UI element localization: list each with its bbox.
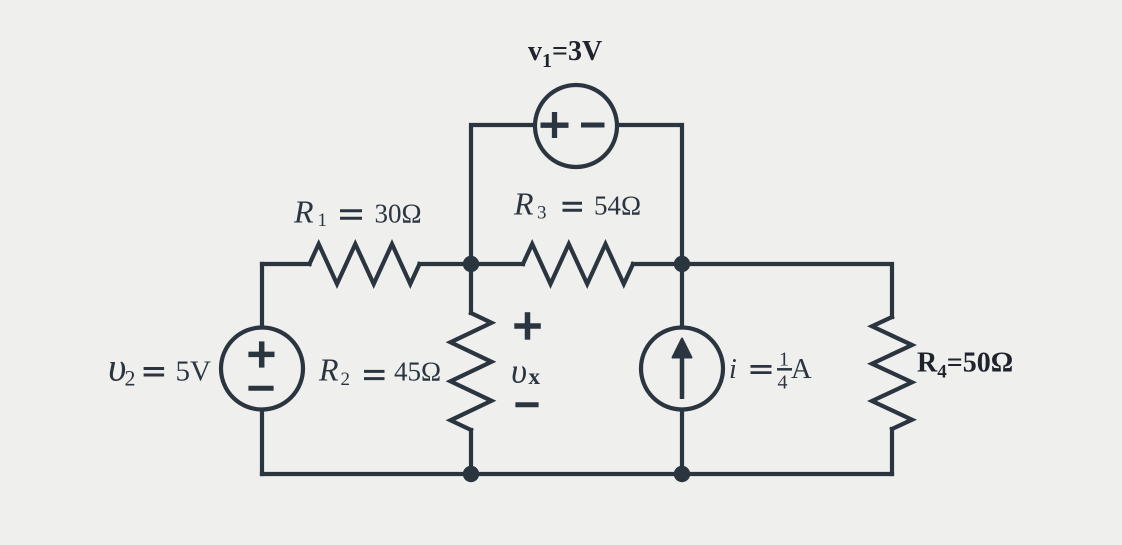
svg-text:A: A — [791, 354, 812, 385]
wire left branch top (R1 left lead to v2 source top) — [260, 264, 264, 326]
wire top-left from node A up and to V1 — [471, 125, 533, 264]
V2 plus sign — [248, 341, 274, 367]
V2 minus sign — [248, 386, 273, 391]
svg-text:x: x — [529, 364, 541, 389]
svg-text:1: 1 — [318, 210, 328, 231]
label R1 = 30 ohm — [293, 194, 422, 232]
resistor R4 — [872, 317, 912, 429]
svg-text:R: R — [293, 194, 314, 230]
resistor R2 — [451, 313, 492, 430]
wire R4 bottom lead — [890, 429, 894, 474]
svg-text:R: R — [513, 186, 534, 222]
wire R3 right lead to node B — [633, 262, 682, 266]
svg-text:v1=3V: v1=3V — [528, 36, 602, 72]
wire R1 left lead — [262, 262, 310, 266]
wire R2 top lead — [469, 264, 473, 313]
svg-text:1: 1 — [779, 349, 789, 371]
label R3 = 54 ohm — [513, 186, 641, 224]
label i = 1/4 A — [729, 349, 812, 394]
svg-text:i: i — [729, 354, 737, 385]
wire node B to R4 branch — [682, 264, 892, 317]
resistor R1 — [310, 244, 420, 284]
I1 arrow shaft — [680, 356, 685, 399]
wire current source top lead — [680, 264, 684, 327]
node A (top middle junction) — [463, 256, 479, 272]
vx plus sign — [514, 312, 541, 340]
wire R3 left lead — [471, 262, 523, 266]
node D (bottom right junction) — [674, 466, 690, 482]
wire left branch bottom (v2 source bottom to bottom rail) — [260, 410, 264, 474]
current source I1 body — [641, 328, 723, 410]
svg-text:R: R — [318, 352, 339, 388]
svg-text:υ: υ — [511, 352, 527, 391]
svg-text:45Ω: 45Ω — [394, 357, 441, 387]
wire current source bottom lead — [680, 411, 684, 474]
wire R1 right lead to node A — [420, 262, 472, 266]
label vx — [511, 352, 541, 391]
svg-text:5V: 5V — [176, 355, 212, 387]
svg-text:2: 2 — [341, 369, 351, 390]
node B (top right junction) — [674, 256, 690, 272]
voltage source V2 body — [221, 328, 303, 410]
resistor R3 — [523, 244, 633, 284]
label R2 = 45 ohm — [318, 352, 441, 390]
svg-text:54Ω: 54Ω — [594, 191, 641, 221]
svg-text:30Ω: 30Ω — [375, 199, 422, 229]
wire bottom rail — [262, 472, 892, 476]
V1 minus sign — [581, 123, 605, 128]
node C (bottom middle junction) — [463, 466, 479, 482]
wire top-right from V1 to node B branch — [619, 125, 682, 264]
voltage source V1 body — [535, 85, 617, 167]
wire R2 bottom lead — [469, 430, 473, 474]
label v2 = 5V — [108, 344, 211, 390]
svg-text:3: 3 — [537, 203, 547, 224]
vx minus sign — [515, 402, 538, 407]
V1 plus sign — [541, 112, 569, 138]
svg-text:2: 2 — [125, 366, 136, 391]
svg-text:4: 4 — [778, 372, 788, 394]
I1 arrowhead — [673, 339, 692, 358]
svg-text:R4=50Ω: R4=50Ω — [917, 348, 1013, 383]
